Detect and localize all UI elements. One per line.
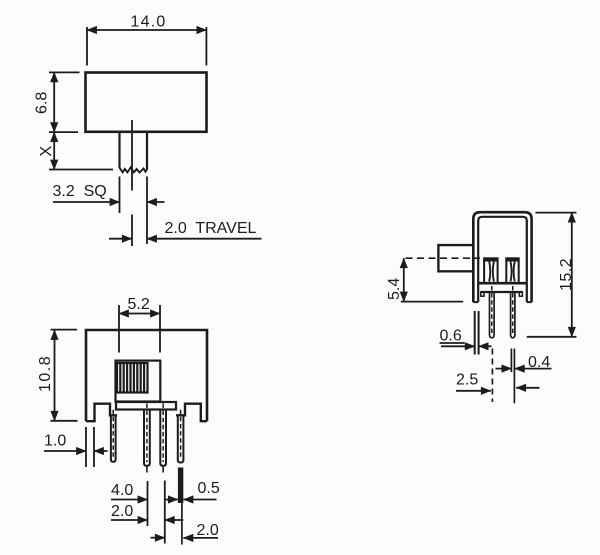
pin D	[178, 410, 184, 463]
dim 3.2 SQ	[53, 201, 165, 203]
svg-text:10.8: 10.8	[37, 355, 54, 392]
side pin P2	[511, 286, 515, 338]
side pin P1	[490, 286, 495, 338]
dim 1.0	[44, 427, 108, 467]
front bottom-left foot	[86, 404, 117, 422]
svg-text:0.5: 0.5	[198, 480, 220, 497]
dim 5.2	[119, 305, 160, 353]
side plate bottom	[481, 291, 523, 293]
side bracket inner	[478, 217, 527, 302]
side bracket outer	[473, 212, 531, 302]
break line zigzag	[120, 167, 148, 172]
base plate	[116, 402, 176, 410]
dim 15.2	[527, 213, 577, 337]
knob serration stripes	[120, 364, 144, 392]
svg-text:2.0 TRAVEL: 2.0 TRAVEL	[165, 220, 257, 237]
svg-text:X: X	[38, 146, 55, 157]
side stem center line	[406, 257, 481, 259]
side plate right tab	[519, 292, 522, 296]
dim 2.0 TRAVEL	[109, 238, 262, 240]
extension line stem left	[119, 177, 121, 214]
dim 10.8	[51, 330, 78, 421]
top view body	[86, 73, 207, 132]
dim 2.5 extension dashed	[491, 349, 493, 403]
front body outline	[86, 330, 207, 421]
svg-text:0.6: 0.6	[440, 328, 462, 345]
knob box	[116, 361, 161, 402]
dim 14.0	[87, 27, 206, 66]
side plate left tab	[481, 292, 484, 296]
pin A	[111, 410, 116, 462]
dim 2.5	[456, 388, 540, 391]
svg-text:0.4: 0.4	[528, 354, 550, 371]
svg-text:2.0: 2.0	[111, 503, 133, 520]
svg-text:4.0: 4.0	[111, 482, 133, 499]
svg-text:5.4: 5.4	[386, 278, 403, 300]
extension line stem right	[146, 177, 148, 245]
side stem	[438, 245, 473, 271]
dim 0.4 extension lines	[511, 349, 514, 404]
dim 4.0	[111, 499, 148, 501]
dim 2.0 left	[111, 519, 183, 521]
svg-text:14.0: 14.0	[131, 14, 167, 31]
svg-text:1.0: 1.0	[44, 433, 66, 450]
dim 0.4	[496, 368, 552, 370]
dim 5.4	[401, 258, 463, 301]
front bottom-right foot	[176, 404, 207, 422]
extension line stem center	[131, 215, 133, 247]
svg-text:5.2: 5.2	[128, 296, 150, 313]
side foot bottoms	[473, 301, 531, 303]
dim extension line pinB center	[147, 481, 149, 526]
pin D lower extension bar	[178, 468, 183, 504]
actuator stem left edge	[118, 132, 120, 168]
knob serration box	[117, 363, 148, 393]
center line of stem	[131, 120, 133, 191]
dim X	[49, 132, 113, 169]
pin B	[144, 404, 150, 473]
svg-text:15.2: 15.2	[558, 258, 575, 291]
svg-text:3.2 SQ: 3.2 SQ	[53, 183, 107, 200]
svg-text:6.8: 6.8	[34, 92, 51, 114]
dim 6.8	[49, 72, 80, 132]
pin C	[160, 404, 166, 473]
terminal T1	[484, 258, 498, 283]
dim 0.6	[440, 343, 492, 346]
side seat line	[478, 282, 527, 285]
pin D lower extension line	[181, 503, 183, 545]
dim 2.0 bottom	[151, 537, 219, 539]
svg-text:2.0: 2.0	[197, 522, 219, 539]
actuator stem right edge	[146, 132, 148, 170]
svg-text:2.5: 2.5	[456, 372, 478, 389]
dim 0.6 extension bar	[475, 311, 479, 355]
terminal T2	[506, 258, 518, 283]
dim 0.5	[165, 499, 217, 501]
dim extension line pinC center	[164, 481, 166, 544]
